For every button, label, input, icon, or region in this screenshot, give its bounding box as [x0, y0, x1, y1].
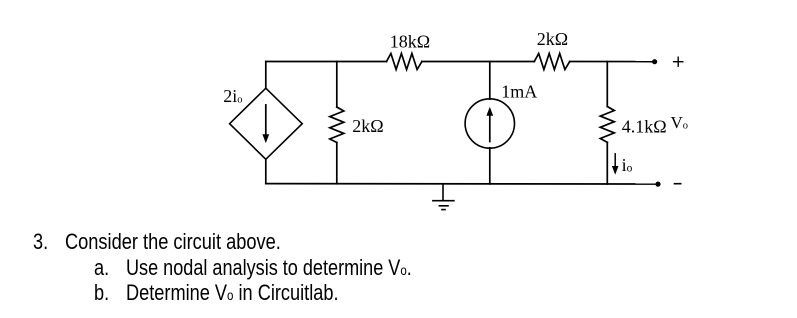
wire: right branch upper: [606, 62, 608, 107]
wire: top rail right segment: [570, 61, 653, 63]
resistor R2 2kOhm (vertical zigzag): [330, 107, 344, 143]
problem text line 3: [33, 231, 48, 253]
wire: 1mA branch upper: [489, 62, 491, 100]
wire: left branch lower: [265, 159, 267, 183]
wire: 2k branch lower: [336, 143, 338, 184]
wire: left branch upper: [265, 62, 267, 89]
resistor R4 4.1kOhm (vertical zigzag): [600, 107, 614, 143]
node dot: output + terminal: [652, 59, 657, 64]
problem text line a: [94, 257, 109, 279]
dependent current source (diamond) 2io: [230, 88, 303, 159]
svg-text:2kΩ: 2kΩ: [537, 29, 568, 49]
resistor R1 18kOhm (horizontal zigzag): [387, 54, 422, 70]
svg-text:4.1kΩ: 4.1kΩ: [622, 116, 667, 136]
svg-text:io: io: [622, 155, 633, 175]
wire: top rail middle segment: [422, 61, 534, 63]
svg-text:2io: 2io: [223, 86, 242, 106]
current source I1 1mA (circle): [465, 99, 514, 148]
ground symbol: [433, 184, 454, 210]
svg-text:18kΩ: 18kΩ: [390, 32, 430, 52]
svg-text:2kΩ: 2kΩ: [352, 116, 383, 136]
problem text line b: [94, 282, 109, 304]
wire: right branch lower: [606, 142, 608, 184]
minus sign: [675, 183, 681, 185]
arrow inside diamond (down): [265, 105, 267, 137]
wire: top rail left segment: [266, 61, 387, 63]
arrow inside circle (up): [489, 114, 491, 142]
resistor R3 2kOhm top (horizontal zigzag): [534, 54, 569, 70]
svg-text:Vo: Vo: [671, 113, 689, 132]
wire: 1mA branch lower: [489, 148, 491, 184]
node dot: output - terminal: [655, 182, 660, 187]
wire: bottom rail: [266, 183, 656, 185]
plus sign: [674, 57, 683, 66]
wire: 2k branch upper: [336, 62, 338, 108]
svg-text:1mA: 1mA: [501, 82, 537, 102]
arrow io (down): [614, 154, 616, 169]
